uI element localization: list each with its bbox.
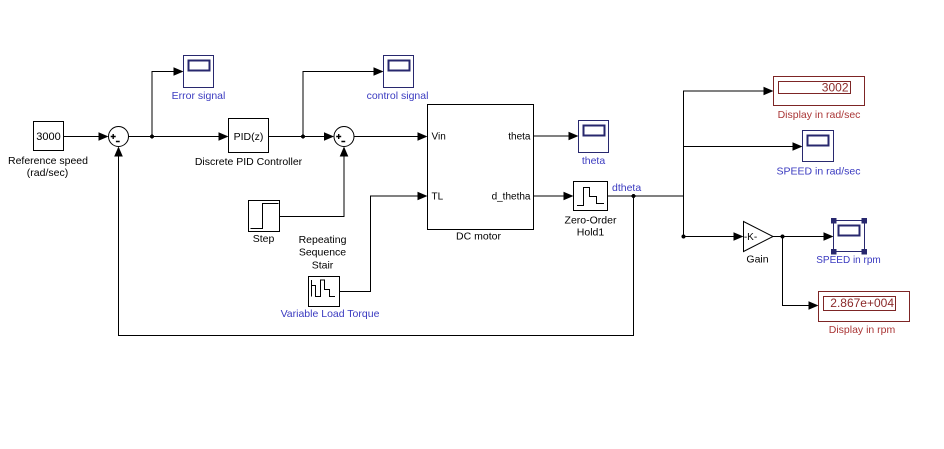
wire feedback loop — [119, 155, 634, 336]
svg-text:Gain: Gain — [746, 254, 768, 266]
scope theta — [579, 121, 609, 153]
PID block — [229, 119, 269, 153]
arrowhead into Display in rad/sec — [764, 87, 774, 96]
wire trunk vertical — [684, 91, 766, 196]
display blocks (maroon) — [774, 77, 910, 322]
Zero-Order Hold1 icon — [577, 188, 604, 206]
junction dot node A — [150, 135, 154, 139]
arrowhead into control signal scope — [374, 67, 384, 76]
svg-text:3002: 3002 — [822, 81, 849, 95]
wire DC motor theta to theta scope — [534, 135, 571, 137]
arrowhead into DC motor TL — [418, 192, 428, 201]
arrowhead into Error signal scope — [174, 67, 184, 76]
blue text labels — [172, 90, 881, 320]
junction dot gain branch — [682, 235, 686, 239]
sum1 plus sign — [111, 134, 120, 142]
svg-text:Sequence: Sequence — [299, 247, 346, 259]
svg-text:Repeating: Repeating — [299, 234, 347, 246]
arrowhead into SPEED in rpm scope — [824, 232, 834, 241]
wire riser to control signal scope — [303, 72, 375, 137]
scope SPEED in rpm (selected) — [834, 221, 865, 252]
svg-text:control signal: control signal — [367, 90, 429, 102]
wire Gain to SPEED in rpm scope — [773, 236, 825, 238]
arrowhead up into sum1 minus — [114, 147, 123, 157]
arrowhead into sum1 — [99, 132, 109, 141]
black text labels — [8, 131, 769, 272]
display Display in rpm — [819, 292, 910, 322]
svg-text:Display in rpm: Display in rpm — [829, 324, 896, 336]
wire PID to sum2 — [269, 136, 327, 138]
svg-text:Zero-Order: Zero-Order — [565, 215, 617, 227]
arrowhead into Zero-Order Hold1 — [564, 192, 574, 201]
svg-text:Hold1: Hold1 — [577, 227, 605, 239]
maroon/red text labels — [778, 81, 896, 337]
arrowhead into DC motor Vin — [418, 132, 428, 141]
arrowhead into Display in rpm — [809, 301, 819, 310]
sum2 plus sign — [336, 134, 345, 142]
DC motor subsystem block — [428, 105, 534, 230]
svg-text:3000: 3000 — [36, 131, 60, 143]
wire Step to sum2 bottom — [280, 155, 345, 217]
svg-text:Step: Step — [253, 233, 275, 245]
Gain triangle block — [744, 222, 774, 252]
wire 3000 to sum1 — [64, 136, 101, 138]
Repeating Sequence Stair icon — [312, 280, 336, 297]
svg-text:dtheta: dtheta — [612, 182, 641, 194]
wire branch to SPEED in rad/sec scope — [684, 146, 795, 148]
Zero-Order Hold1 block — [574, 182, 608, 211]
svg-text:theta: theta — [582, 155, 606, 167]
svg-text:TL: TL — [432, 192, 444, 203]
junction dot after gain — [781, 235, 785, 239]
arrowhead into PID — [219, 132, 229, 141]
svg-text:Display in rad/sec: Display in rad/sec — [778, 109, 861, 121]
svg-text:Reference speed: Reference speed — [8, 155, 88, 167]
wire down to Display in rpm — [783, 237, 811, 306]
svg-text:theta: theta — [508, 132, 531, 143]
svg-text:PID(z): PID(z) — [234, 131, 264, 143]
svg-text:Discrete PID Controller: Discrete PID Controller — [195, 156, 303, 168]
scope SPEED in rad/sec — [803, 131, 834, 162]
wire trunk down to Gain — [684, 196, 736, 237]
wire DC motor d_thetha to Zero-Order Hold1 — [534, 195, 566, 197]
wire Variable Load Torque to DC motor TL — [340, 196, 420, 292]
Step block icon — [251, 204, 279, 229]
selection handles on SPEED in rpm scope — [831, 218, 867, 255]
scopes (navy) — [184, 56, 865, 252]
arrowhead into sum2 — [324, 132, 334, 141]
arrowheads — [99, 67, 834, 310]
wire sum1 to PID — [129, 136, 221, 138]
svg-text:Stair: Stair — [312, 260, 334, 272]
svg-text:-K-: -K- — [744, 232, 757, 243]
svg-text:Error signal: Error signal — [172, 90, 226, 102]
junction dot node dtheta — [632, 194, 636, 198]
svg-text:Vin: Vin — [432, 132, 446, 143]
svg-text:SPEED in rpm: SPEED in rpm — [816, 255, 880, 266]
wire Zero-Order Hold1 output — [608, 195, 684, 197]
svg-text:(rad/sec): (rad/sec) — [27, 167, 68, 179]
scope control signal — [384, 56, 414, 88]
constant block Reference speed (3000) — [34, 122, 64, 151]
arrowhead up into sum2 minus — [340, 147, 349, 157]
arrowhead into theta scope — [569, 132, 579, 141]
sum junction sum2 — [334, 127, 354, 147]
svg-text:Variable Load Torque: Variable Load Torque — [281, 308, 380, 320]
wire riser to Error signal scope — [152, 72, 175, 137]
arrowhead into Gain — [734, 232, 744, 241]
svg-text:DC motor: DC motor — [456, 231, 501, 243]
arrowhead into SPEED in rad/sec scope — [793, 142, 803, 151]
Step block — [249, 201, 280, 232]
scope Error signal — [184, 56, 214, 88]
wire sum2 to DC motor Vin — [354, 136, 419, 138]
junction dot node B — [301, 135, 305, 139]
display Display in rad/sec — [774, 77, 865, 106]
sum junction sum1 — [109, 127, 129, 147]
svg-text:2.867e+004: 2.867e+004 — [830, 296, 894, 310]
Repeating Sequence Stair block — [309, 277, 340, 307]
svg-text:SPEED in rad/sec: SPEED in rad/sec — [776, 166, 860, 178]
svg-text:d_thetha: d_thetha — [492, 192, 531, 203]
